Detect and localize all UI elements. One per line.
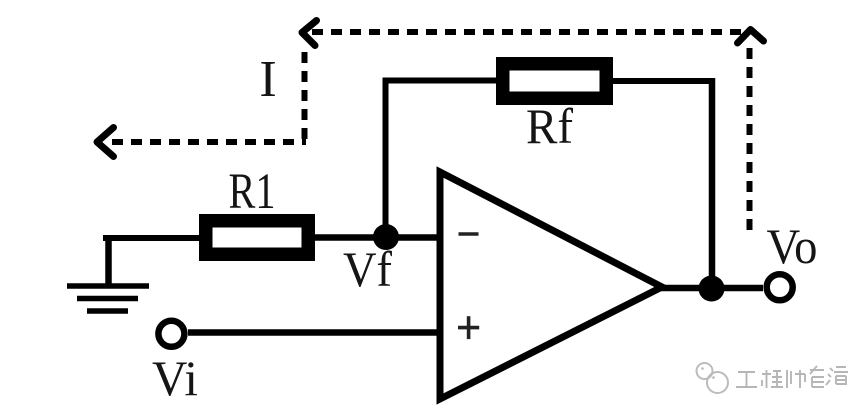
svg-text:Rf: Rf (526, 98, 573, 154)
svg-text:Vo: Vo (767, 218, 818, 274)
dashed current line right riser (747, 48, 753, 238)
dashed current line left riser (302, 45, 308, 139)
wire ground drop (105, 235, 112, 287)
wire R1-to-opamp (inverting input) (315, 234, 440, 241)
wire feedback top-right (613, 78, 712, 84)
wire opamp-output (660, 285, 763, 292)
wire Vi-to-opamp (non-inverting input) (188, 329, 440, 336)
resistor Rf (503, 64, 607, 99)
resistor R1 (206, 221, 309, 255)
char shi (787, 370, 805, 388)
svg-text:Vi: Vi (152, 350, 198, 406)
wire feedback top-left (383, 78, 498, 84)
svg-text:Vf: Vf (343, 241, 392, 297)
dashed current line top (312, 29, 746, 35)
node Vf (373, 224, 399, 250)
ground (67, 286, 149, 311)
char gong (736, 372, 757, 387)
terminal Vi (158, 321, 184, 347)
terminal Vo (767, 274, 793, 300)
wire output drop (709, 78, 716, 288)
char cheng (762, 370, 783, 388)
svg-text:R1: R1 (229, 164, 276, 220)
dashed current line bottom-left (112, 139, 306, 145)
char kan (810, 366, 824, 387)
watermark text (736, 366, 848, 388)
current arrow top-right (738, 30, 764, 44)
watermark logo (697, 363, 729, 393)
op-amp plus sign (458, 316, 479, 339)
op-amp minus sign (459, 232, 479, 236)
wire Vf riser (383, 81, 389, 238)
current arrow top-left (302, 21, 317, 46)
wire ground-to-R1 (103, 235, 200, 241)
char hai (826, 367, 848, 385)
node output (699, 276, 725, 302)
svg-text:I: I (259, 51, 276, 108)
op-amp U1 (440, 172, 662, 399)
current arrow left (97, 128, 114, 157)
